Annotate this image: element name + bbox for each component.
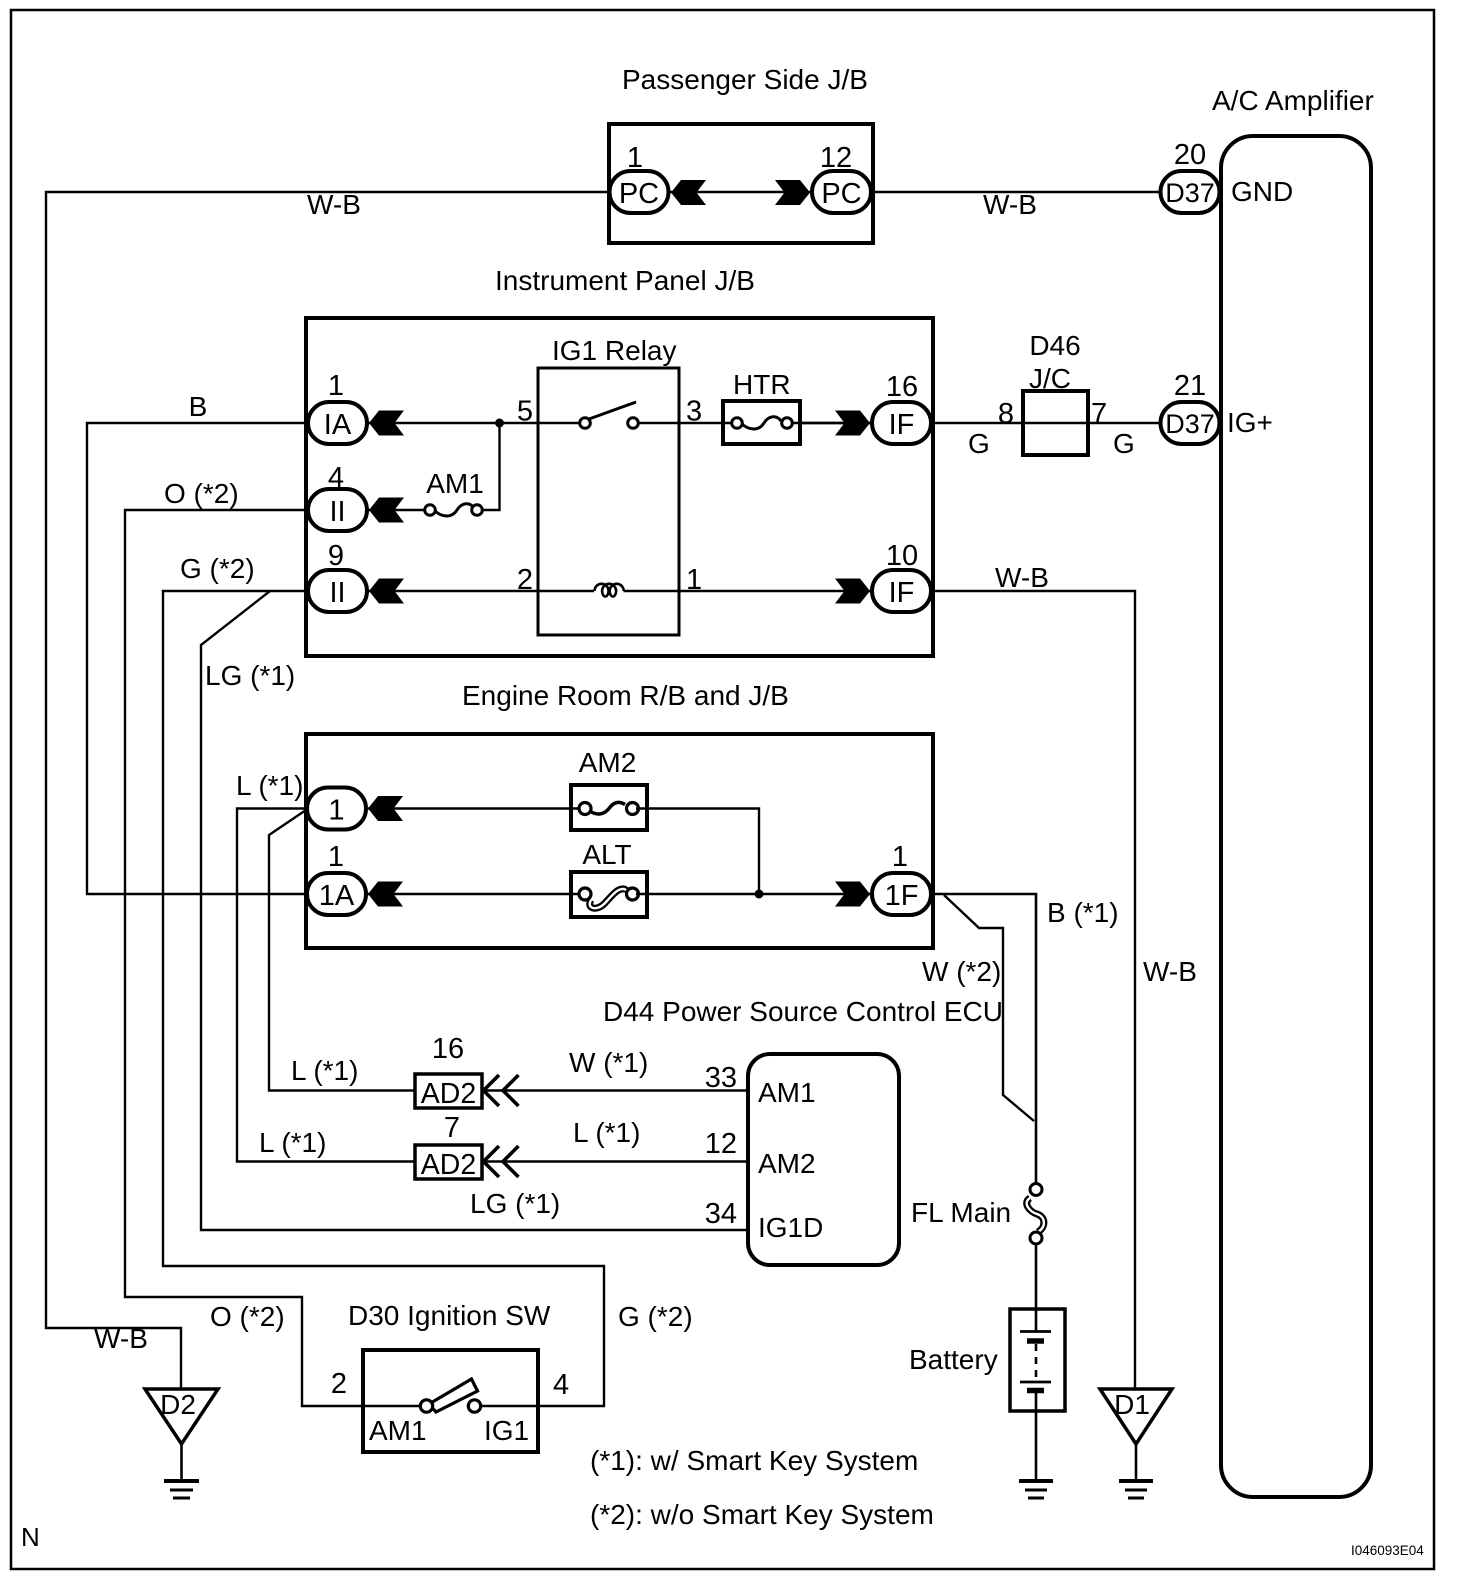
svg-text:1: 1 bbox=[892, 841, 908, 873]
svg-text:G (*2): G (*2) bbox=[618, 1301, 693, 1332]
svg-text:12: 12 bbox=[820, 142, 852, 174]
svg-text:N: N bbox=[21, 1522, 40, 1552]
wire ALT to 1F bbox=[636, 893, 873, 895]
connector arrow at IF16 (points right) bbox=[835, 411, 870, 436]
fuse AM2 symbol bbox=[579, 802, 639, 814]
connector arrow at IF10 (points right) bbox=[835, 579, 870, 604]
fuse AM1 symbol bbox=[425, 504, 483, 516]
svg-text:L (*1): L (*1) bbox=[291, 1055, 358, 1086]
wire row II4 to AM1 fuse bbox=[367, 509, 431, 511]
svg-text:1: 1 bbox=[328, 795, 344, 827]
relay switch contact wire bbox=[538, 422, 580, 424]
svg-text:LG (*1): LG (*1) bbox=[470, 1188, 560, 1219]
wire row 1A to ALT bbox=[367, 893, 590, 895]
ground (D1) bbox=[1119, 1481, 1153, 1498]
wire HTR to IF16 bbox=[800, 422, 873, 424]
wire FL Main to battery bbox=[1035, 1244, 1038, 1311]
svg-text:IG1D: IG1D bbox=[758, 1212, 823, 1243]
svg-text:7: 7 bbox=[444, 1112, 460, 1144]
svg-text:D30 Ignition SW: D30 Ignition SW bbox=[348, 1300, 551, 1331]
connector PC pin 12 oval bbox=[812, 171, 871, 213]
wire L(*1) diagonal branch to AD2-16 row bbox=[269, 810, 417, 1091]
wire inside Passenger J/B between PC1 and PC12 bbox=[669, 191, 812, 193]
D46 J/C box bbox=[1023, 391, 1088, 455]
battery box bbox=[1010, 1309, 1065, 1411]
svg-text:W (*1): W (*1) bbox=[569, 1047, 648, 1078]
svg-text:D2: D2 bbox=[160, 1389, 196, 1420]
wire W-B: PC12 to A/C amplifier D37-20 bbox=[871, 191, 1161, 193]
connector II pin 9 oval bbox=[308, 570, 367, 612]
svg-text:Engine Room R/B and J/B: Engine Room R/B and J/B bbox=[462, 680, 789, 711]
wire IF16 to D46 J/C to D37-21 bbox=[931, 422, 1161, 424]
wire W-B: PC1 left to border down to D2 bbox=[46, 192, 609, 1389]
svg-text:IG+: IG+ bbox=[1227, 407, 1273, 438]
relay switch symbol bbox=[580, 402, 639, 428]
connector D37 pin 20 oval bbox=[1161, 171, 1220, 213]
connector AD2 (pin16) box bbox=[415, 1074, 482, 1108]
svg-text:L (*1): L (*1) bbox=[259, 1127, 326, 1158]
wire D2 to ground bbox=[180, 1444, 183, 1481]
ground (battery) bbox=[1019, 1481, 1053, 1498]
svg-text:W-B: W-B bbox=[307, 189, 361, 220]
svg-text:L (*1): L (*1) bbox=[236, 770, 303, 801]
wire D1 to ground bbox=[1135, 1444, 1138, 1481]
svg-text:12: 12 bbox=[705, 1128, 737, 1160]
connector pin 1 oval (engine room) bbox=[307, 788, 366, 830]
svg-text:(*1): w/ Smart Key System: (*1): w/ Smart Key System bbox=[590, 1445, 918, 1476]
svg-text:ALT: ALT bbox=[582, 839, 631, 870]
svg-text:HTR: HTR bbox=[733, 369, 791, 400]
ignition switch lever bbox=[429, 1379, 478, 1412]
svg-text:9: 9 bbox=[328, 540, 344, 572]
ground (D2) bbox=[164, 1481, 199, 1498]
svg-text:4: 4 bbox=[328, 462, 344, 494]
wire B: IA to left column down to 1A bbox=[87, 423, 308, 894]
svg-text:7: 7 bbox=[1091, 398, 1107, 430]
svg-text:G: G bbox=[1113, 428, 1135, 459]
svg-text:Passenger Side J/B: Passenger Side J/B bbox=[622, 64, 868, 95]
svg-text:10: 10 bbox=[886, 540, 918, 572]
svg-text:D37: D37 bbox=[1165, 409, 1215, 439]
wire LG(*1): branch from II9 wire diagonally down to ECU IG1D bbox=[201, 591, 750, 1230]
svg-text:PC: PC bbox=[821, 178, 861, 210]
svg-text:Battery: Battery bbox=[909, 1344, 998, 1375]
svg-text:II: II bbox=[329, 577, 345, 609]
connector 1A oval bbox=[307, 873, 366, 915]
ignition switch contact wires bbox=[363, 1405, 422, 1407]
svg-text:I046093E04: I046093E04 bbox=[1351, 1543, 1424, 1558]
wire relay pin3 to HTR bbox=[679, 422, 739, 424]
svg-text:A/C Amplifier: A/C Amplifier bbox=[1212, 85, 1374, 116]
svg-text:II: II bbox=[329, 496, 345, 528]
connector IF pin 16 oval bbox=[872, 402, 931, 444]
connector arrow at PC12 (points right) bbox=[775, 180, 810, 205]
svg-text:16: 16 bbox=[886, 371, 918, 403]
svg-text:Instrument Panel J/B: Instrument Panel J/B bbox=[495, 265, 755, 296]
connector arrow at PC1 (points left) bbox=[671, 180, 706, 205]
Passenger Side J/B box bbox=[609, 124, 873, 243]
svg-text:W-B: W-B bbox=[94, 1323, 148, 1354]
svg-text:1: 1 bbox=[627, 142, 643, 174]
svg-text:G: G bbox=[968, 428, 990, 459]
svg-text:16: 16 bbox=[432, 1033, 464, 1065]
svg-text:1A: 1A bbox=[319, 880, 355, 912]
svg-text:IG1 Relay: IG1 Relay bbox=[552, 335, 677, 366]
D44 ECU body bbox=[748, 1054, 899, 1265]
svg-text:AM1: AM1 bbox=[426, 468, 484, 499]
svg-text:(*2): w/o Smart Key System: (*2): w/o Smart Key System bbox=[590, 1499, 934, 1530]
svg-text:1: 1 bbox=[328, 370, 344, 402]
relay coil symbol bbox=[595, 584, 624, 597]
fuse HTR symbol bbox=[732, 417, 793, 429]
wire O(*2): II4 left, down, to D30 pin 2 bbox=[125, 510, 365, 1406]
wire W-B: IF10 right, down to D1 bbox=[931, 591, 1135, 1389]
svg-text:W-B: W-B bbox=[995, 562, 1049, 593]
svg-text:8: 8 bbox=[998, 398, 1014, 430]
svg-text:AM1: AM1 bbox=[369, 1415, 427, 1446]
wire W(*1): AD2-16 to ECU AM1 bbox=[482, 1089, 748, 1091]
A/C Amplifier body bbox=[1221, 136, 1371, 1497]
wire AM1 fuse to junction bbox=[483, 427, 500, 510]
wire L(*1): AD2-7 to ECU AM2 bbox=[482, 1160, 748, 1162]
ignition switch contacts bbox=[420, 1400, 480, 1412]
svg-text:LG (*1): LG (*1) bbox=[205, 660, 295, 691]
connector II pin 4 oval bbox=[308, 489, 367, 531]
svg-text:20: 20 bbox=[1174, 139, 1206, 171]
svg-text:AM1: AM1 bbox=[758, 1077, 816, 1108]
wire AM2 right to junction on ALT row bbox=[636, 809, 759, 895]
wire W(*2): branch diagonal from 1F wire down to FL Main bbox=[944, 895, 1034, 1121]
battery internal symbol bbox=[1020, 1309, 1051, 1411]
svg-text:B: B bbox=[189, 391, 208, 422]
svg-text:O (*2): O (*2) bbox=[164, 478, 239, 509]
connector arrow at II4 (points left) bbox=[369, 498, 404, 523]
connector arrow at IA (points left) bbox=[369, 411, 404, 436]
connector PC pin 1 oval bbox=[610, 171, 669, 213]
svg-text:IF: IF bbox=[889, 409, 915, 441]
svg-text:D37: D37 bbox=[1165, 178, 1215, 208]
svg-text:D46: D46 bbox=[1029, 330, 1080, 361]
svg-text:4: 4 bbox=[553, 1369, 569, 1401]
ground point D2 triangle bbox=[145, 1389, 218, 1444]
svg-text:2: 2 bbox=[331, 1368, 347, 1400]
connector arrow at II9 (points left) bbox=[369, 579, 404, 604]
ground point D1 triangle bbox=[1100, 1389, 1172, 1444]
connector IA pin 1 oval bbox=[308, 402, 367, 444]
svg-text:D1: D1 bbox=[1114, 1389, 1150, 1420]
svg-text:21: 21 bbox=[1174, 370, 1206, 402]
svg-text:5: 5 bbox=[517, 396, 533, 428]
svg-text:1: 1 bbox=[328, 841, 344, 873]
svg-text:L (*1): L (*1) bbox=[573, 1117, 640, 1148]
connector arrow at 1A (points left) bbox=[368, 882, 403, 907]
svg-text:G (*2): G (*2) bbox=[180, 553, 255, 584]
wire row oval1 to AM2 bbox=[367, 807, 590, 809]
svg-text:AD2: AD2 bbox=[421, 1149, 476, 1181]
junction dot on ALT row bbox=[755, 890, 764, 899]
svg-text:PC: PC bbox=[619, 178, 659, 210]
wire row II9/coil to IF10 bbox=[679, 590, 873, 592]
Instrument Panel J/B box bbox=[306, 318, 933, 656]
wire row IA-relay pin5 bbox=[367, 422, 538, 424]
wire L(*1): oval 1 left, down to AD2-7 row bbox=[237, 809, 417, 1162]
svg-text:B (*1): B (*1) bbox=[1047, 897, 1119, 928]
wire G(*2): II9 left, down, to D30 pin 4 bbox=[163, 591, 604, 1406]
svg-text:O (*2): O (*2) bbox=[210, 1301, 285, 1332]
junction dot at relay pin 5 branch bbox=[495, 419, 504, 428]
fusible link ALT symbol bbox=[579, 888, 639, 908]
relay IG1 box bbox=[538, 368, 679, 635]
Engine Room box bbox=[306, 734, 933, 948]
svg-text:W (*2): W (*2) bbox=[922, 956, 1001, 987]
svg-text:GND: GND bbox=[1231, 176, 1293, 207]
svg-text:IA: IA bbox=[324, 409, 352, 441]
connector IF pin 10 oval bbox=[872, 570, 931, 612]
svg-text:AD2: AD2 bbox=[421, 1078, 476, 1110]
svg-text:FL Main: FL Main bbox=[911, 1197, 1011, 1228]
svg-text:34: 34 bbox=[705, 1198, 737, 1230]
connector arrow at 1F (points right) bbox=[835, 882, 870, 907]
svg-text:IF: IF bbox=[889, 577, 915, 609]
fusible link FL Main symbol bbox=[1027, 1184, 1044, 1245]
svg-text:D44 Power Source Control ECU: D44 Power Source Control ECU bbox=[603, 996, 1003, 1027]
svg-text:AM2: AM2 bbox=[758, 1148, 816, 1179]
svg-text:W-B: W-B bbox=[983, 189, 1037, 220]
fusible link ALT box bbox=[571, 872, 647, 917]
svg-text:W-B: W-B bbox=[1143, 956, 1197, 987]
wire B(*1): 1F right then down to FL Main bbox=[931, 894, 1036, 1185]
fuse HTR box bbox=[723, 401, 800, 444]
wire row II9 to relay pin 2 bbox=[367, 590, 538, 592]
fuse AM2 box bbox=[571, 785, 647, 830]
connector 1F oval bbox=[872, 873, 931, 915]
svg-text:1F: 1F bbox=[885, 880, 919, 912]
wire battery to ground bbox=[1035, 1411, 1038, 1481]
connector arrow at oval 1 (points left) bbox=[368, 796, 403, 821]
D30 box bbox=[363, 1350, 538, 1452]
svg-text:2: 2 bbox=[517, 564, 533, 596]
connector chevrons at AD2-16 bbox=[484, 1075, 519, 1106]
svg-text:IG1: IG1 bbox=[484, 1415, 529, 1446]
svg-text:33: 33 bbox=[705, 1062, 737, 1094]
relay coil wire bbox=[538, 590, 594, 592]
svg-text:AM2: AM2 bbox=[579, 747, 637, 778]
connector D37 pin 21 oval bbox=[1161, 402, 1220, 444]
connector chevrons at AD2-7 bbox=[484, 1146, 519, 1177]
connector AD2 (pin7) box bbox=[415, 1145, 482, 1179]
